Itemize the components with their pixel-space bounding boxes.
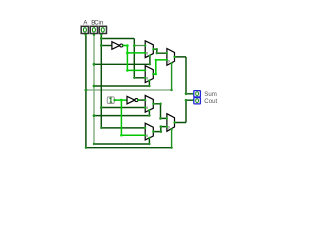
wire B run y=144 to mux5 select bbox=[94, 138, 149, 144]
constant 1 bbox=[107, 97, 116, 104]
node Sum feed corner bbox=[185, 93, 188, 96]
node Cin junction y=107.5 bbox=[100, 106, 103, 109]
node Cin-x134 junction y=45.5 bbox=[133, 44, 136, 47]
label B bbox=[91, 21, 95, 27]
wire Cin branch to mux2 input 1 bbox=[134, 77, 145, 79]
wire mux4 output to mux6 input 0 bbox=[153, 104, 167, 119]
wire Cin vertical x=134.3 bbox=[133, 39, 135, 78]
label Sum bbox=[204, 91, 217, 98]
wire constant 1 net (value 1) bbox=[114, 100, 145, 135]
wire mux3 output to Sum pin bbox=[175, 57, 194, 94]
not gate U2 (inverter on constant) bbox=[127, 96, 139, 104]
node A corner y=147.7 bbox=[85, 147, 87, 149]
wire Cin to NOT1 input y=45.5 bbox=[101, 45, 112, 47]
node mux2 out corners bbox=[155, 59, 157, 76]
node corner x134 y77.8 bbox=[133, 77, 135, 79]
wire mux3 select vertical x=171.6 bbox=[171, 63, 173, 90]
wire Cin run y=127.9 to mux5 input 0 bbox=[101, 127, 145, 129]
node mux4 select corner bbox=[148, 114, 150, 116]
wire B run y=86 to mux2 select bbox=[94, 81, 149, 87]
node mux5 out corners bbox=[160, 125, 163, 133]
node NOT1 net corner y70.4 bbox=[126, 69, 129, 72]
wire B run y=64.3 to mux1 select bbox=[94, 56, 150, 65]
wire mux1 output to mux3 input 0 bbox=[153, 49, 167, 53]
node NOT1 out corner x127.4 y45.5 bbox=[126, 44, 129, 47]
wire mux5 output to mux6 input 1 bbox=[153, 127, 167, 132]
node mux4 out corners bbox=[159, 103, 162, 120]
svg-text:0: 0 bbox=[146, 77, 148, 81]
node Cin junction y=38.5 bbox=[100, 37, 103, 40]
svg-text:0: 0 bbox=[146, 134, 148, 138]
input pin Cin bbox=[99, 26, 106, 36]
label A bbox=[83, 21, 87, 27]
wire Cin run y=38.5 bbox=[101, 38, 134, 40]
not gate U1 (inverter on Cin) bbox=[112, 42, 124, 50]
node Cin corner y=127.9 bbox=[100, 127, 102, 129]
svg-text:0: 0 bbox=[146, 52, 148, 56]
svg-text:Cout: Cout bbox=[204, 98, 217, 105]
node const corner y135.2 bbox=[120, 134, 123, 137]
multiplexer MUX3 bbox=[166, 49, 176, 66]
wire mux2 output to mux3 input 1 (value 1) bbox=[153, 60, 167, 74]
label Cin bbox=[94, 21, 103, 27]
node Cout feed corner bbox=[185, 99, 188, 102]
node mux2 select corner bbox=[148, 85, 150, 87]
wire A horizontal run y=90 to mux3 select bbox=[86, 89, 172, 91]
svg-text:Cin: Cin bbox=[94, 21, 103, 27]
multiplexer MUX2 bbox=[144, 66, 155, 83]
node mux5 select corner bbox=[148, 143, 150, 145]
node B junction y=115.6 bbox=[93, 114, 96, 117]
multiplexer MUX6 bbox=[166, 114, 176, 132]
multiplexer MUX5 bbox=[144, 123, 155, 140]
wire Cin vertical from pin Cin bbox=[100, 34, 102, 128]
node A junction y=90 bbox=[85, 89, 88, 92]
wire B vertical from pin B bbox=[93, 34, 95, 144]
svg-text:0: 0 bbox=[168, 59, 170, 63]
wire Cin branch to mux1 input 0 bbox=[134, 45, 145, 47]
svg-text:0: 0 bbox=[168, 126, 170, 130]
node const junction x121.4 bbox=[120, 99, 123, 102]
wire B run y=115.6 to mux4 select bbox=[94, 110, 149, 115]
output pin Sum bbox=[192, 91, 200, 97]
node NOT1 net junction y52.9 bbox=[126, 52, 129, 55]
node Cin junction y=45.5 bbox=[100, 44, 103, 47]
wire NOT1 output net (value 1) bbox=[123, 46, 145, 71]
output pin Cout bbox=[192, 98, 200, 104]
svg-text:Sum: Sum bbox=[204, 91, 217, 98]
wire Cin run y=107.5 to mux4 input 1 bbox=[101, 107, 145, 109]
node B corner y=144 bbox=[93, 143, 95, 145]
node mux6 select corner bbox=[170, 147, 172, 149]
multiplexer MUX1 bbox=[144, 41, 155, 58]
multiplexer MUX4 bbox=[144, 95, 155, 112]
label Cout bbox=[204, 98, 217, 105]
node B junction y=64.3 bbox=[93, 63, 96, 66]
wire mux6 select vertical x=171.6 bbox=[171, 129, 173, 147]
wire A bottom run y=147.7 bbox=[86, 147, 172, 149]
svg-text:0: 0 bbox=[146, 106, 148, 110]
input pin B bbox=[90, 26, 97, 36]
node mux1 out corners bbox=[156, 48, 158, 54]
svg-text:A: A bbox=[83, 21, 87, 27]
node mux3 select corner bbox=[170, 89, 172, 91]
input pin A bbox=[81, 26, 88, 36]
node B junction y=86 bbox=[93, 85, 96, 88]
node mux1 select corner bbox=[149, 63, 151, 65]
wire A vertical from pin A bbox=[85, 34, 87, 148]
wire NOT2 output to mux4 input 0 bbox=[138, 99, 145, 101]
wire mux6 output to Cout pin bbox=[175, 100, 194, 122]
